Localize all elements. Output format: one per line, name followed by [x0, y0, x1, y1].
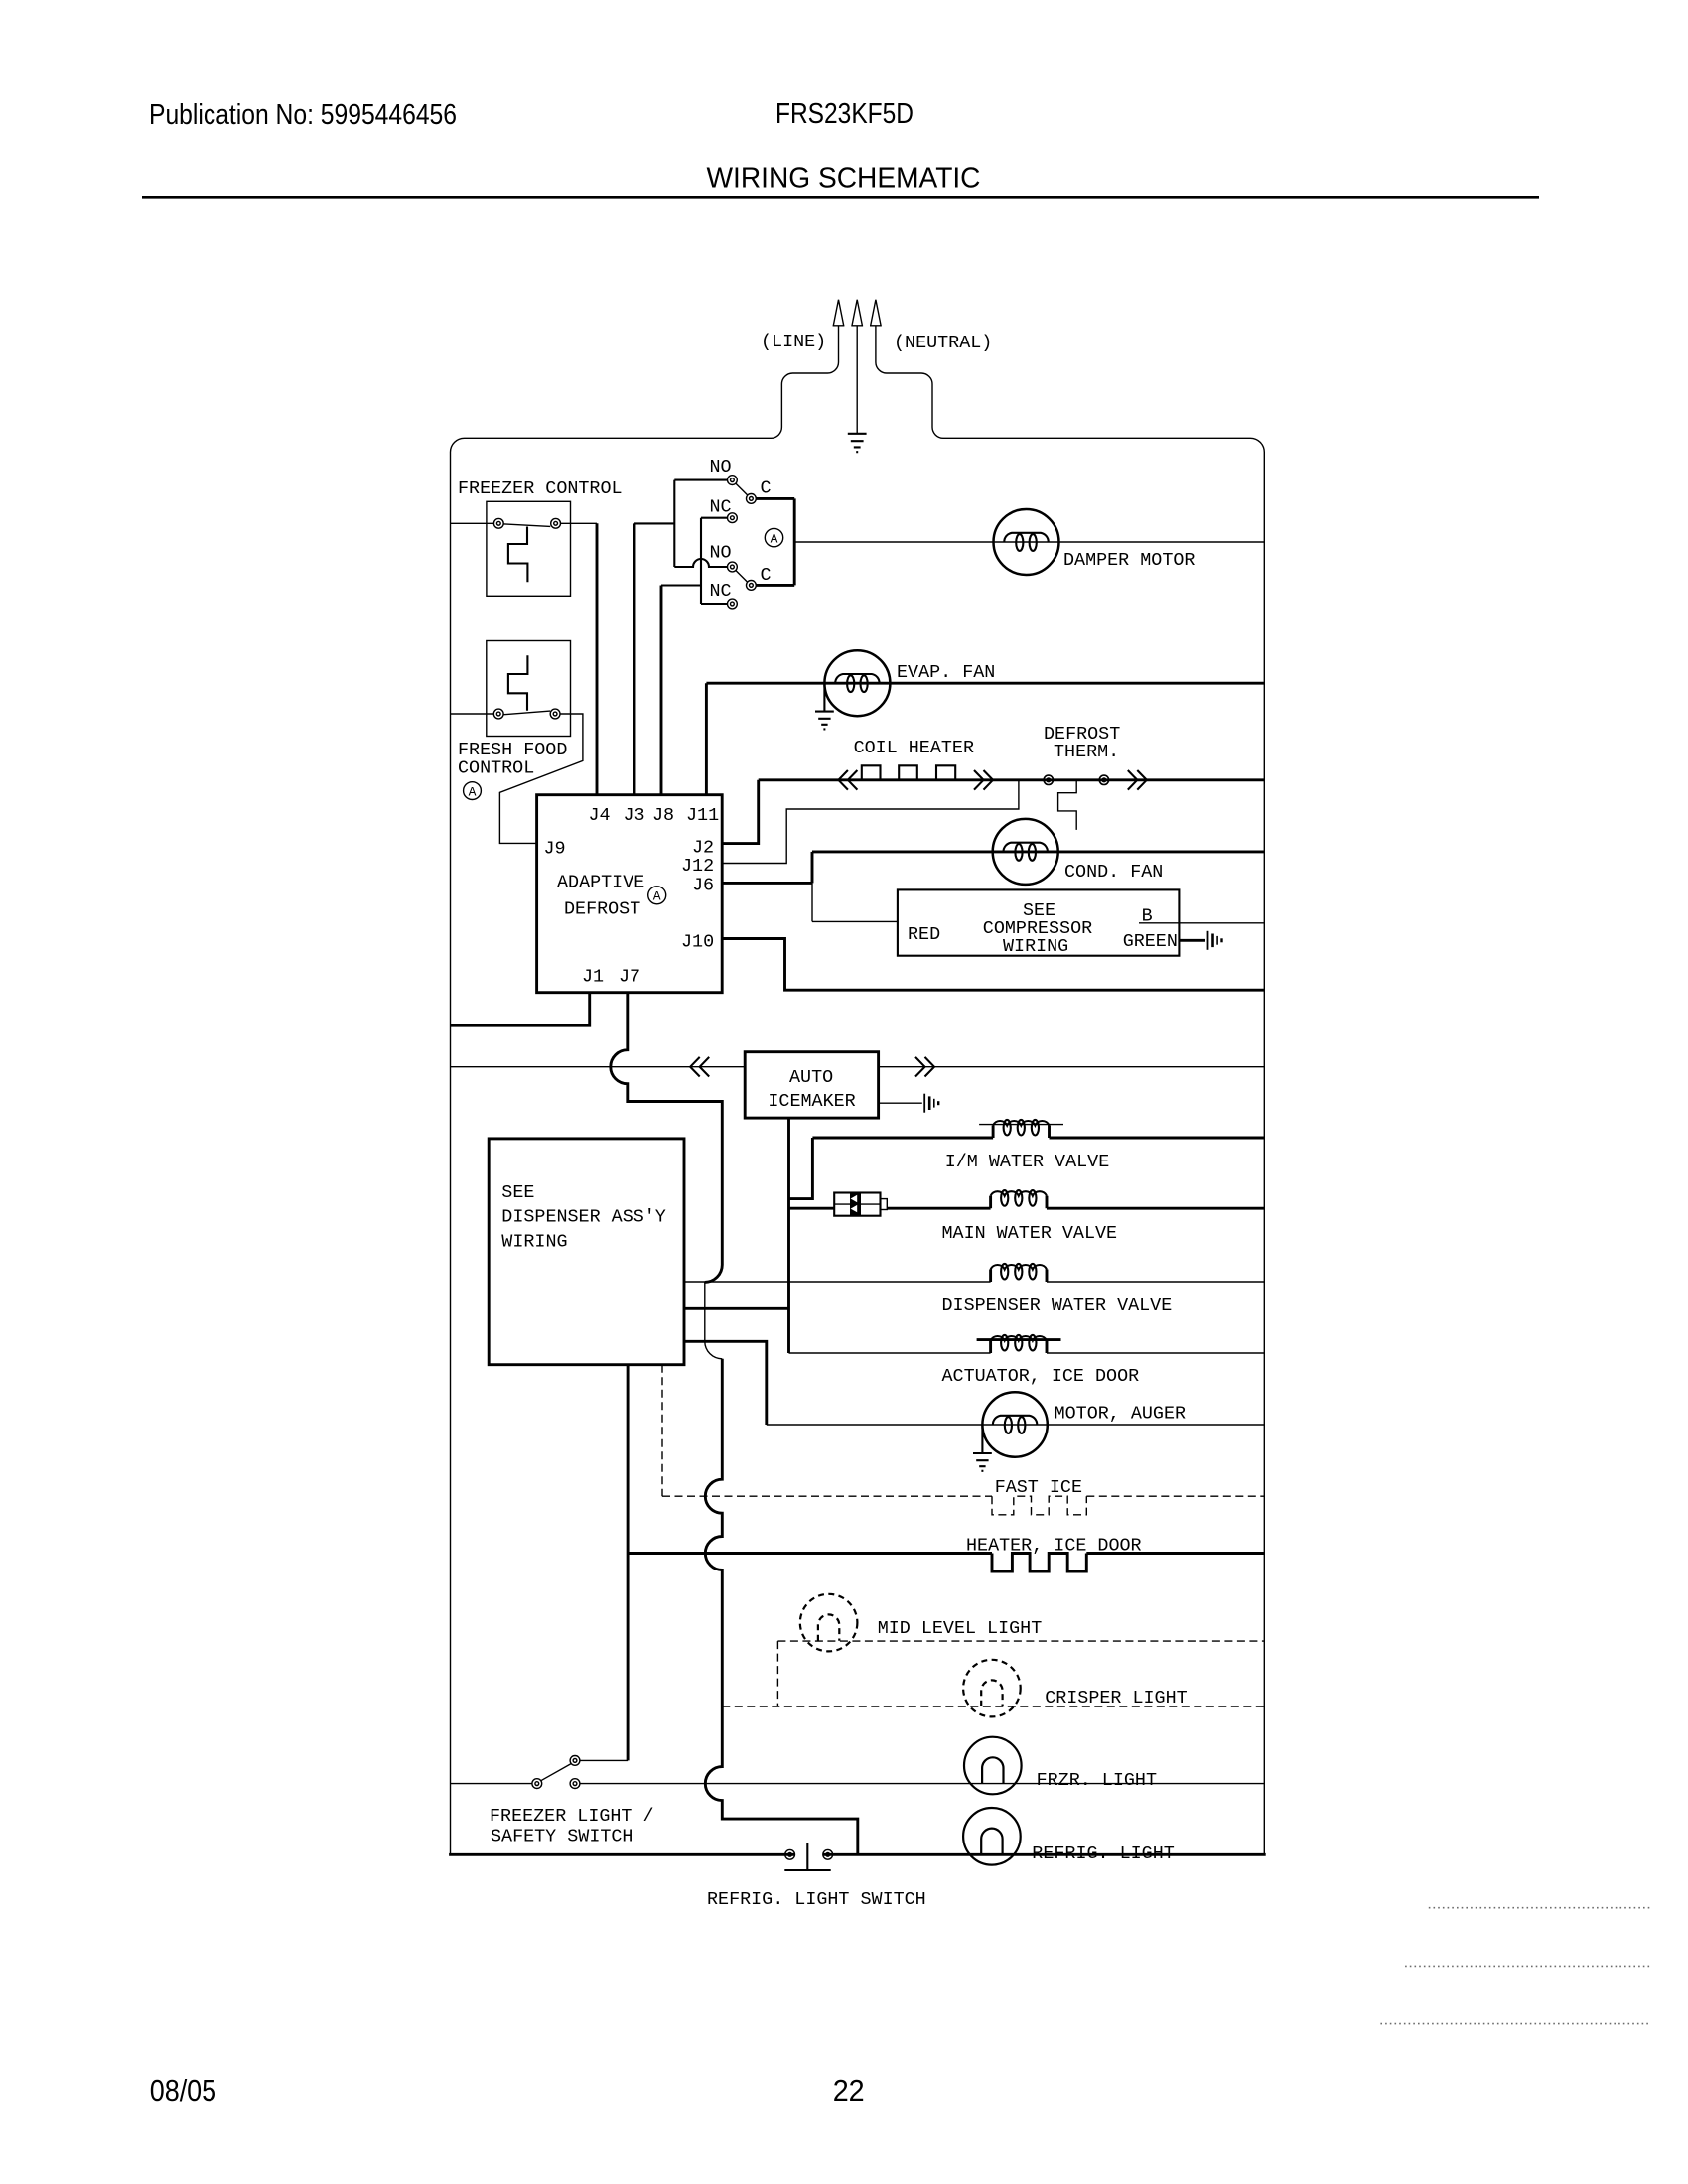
- wire: heater ice door line right: [1086, 1552, 1264, 1555]
- svg-text:REFRIG. LIGHT SWITCH: REFRIG. LIGHT SWITCH: [707, 1889, 926, 1910]
- coil heater element: [862, 765, 955, 780]
- plug prong arrow (NEUTRAL): [870, 300, 882, 326]
- defrost therm terminal dot left: [1044, 775, 1053, 784]
- auger motor: [982, 1392, 1047, 1456]
- svg-text:FREEZER CONTROL: FREEZER CONTROL: [458, 478, 623, 499]
- relay switch arm 1: [736, 483, 748, 495]
- svg-text:COIL HEATER: COIL HEATER: [854, 738, 974, 758]
- header rule: [142, 196, 1539, 199]
- wire: auger ground stub: [981, 1425, 983, 1452]
- svg-text:MOTOR, AUGER: MOTOR, AUGER: [1055, 1404, 1186, 1425]
- svg-text:J6: J6: [692, 876, 714, 896]
- svg-text:ICEMAKER: ICEMAKER: [768, 1091, 855, 1112]
- wire: safety switch top to dispenser drop: [580, 1759, 628, 1761]
- wire: C2 to relay right bracket: [756, 584, 794, 587]
- freezer control thermostat staircase: [508, 527, 528, 583]
- svg-text:08/05: 08/05: [150, 2073, 217, 2108]
- svg-text:J8: J8: [652, 805, 674, 826]
- wire: evap fan ground stub: [823, 683, 825, 711]
- svg-text:EVAP. FAN: EVAP. FAN: [897, 662, 995, 683]
- svg-text:C: C: [761, 565, 772, 586]
- svg-text:CRISPER LIGHT: CRISPER LIGHT: [1045, 1688, 1187, 1708]
- svg-text:(NEUTRAL): (NEUTRAL): [894, 333, 992, 353]
- wire: connector to main water valve: [887, 1207, 990, 1210]
- relay contact NC2 terminal: [728, 599, 738, 609]
- chassis ground (icemaker): [923, 1094, 925, 1113]
- svg-text:SEE: SEE: [501, 1182, 534, 1203]
- cond fan motor: [993, 819, 1058, 885]
- fresh food thermostat staircase: [508, 655, 528, 711]
- dispenser water valve coil: [989, 1270, 992, 1283]
- wire: icemaker bottom pin drop: [787, 1118, 790, 1353]
- svg-text:A: A: [469, 784, 477, 799]
- svg-text:WIRING: WIRING: [1003, 936, 1068, 957]
- wire: J8 link to NC riser: [661, 584, 701, 586]
- fresh food switch arm: [503, 711, 550, 715]
- svg-text:22: 22: [833, 2073, 865, 2108]
- dotted note line 2: [1405, 1965, 1650, 1967]
- wire: J6 stub: [722, 882, 812, 885]
- crisper light bulb: [963, 1660, 1021, 1717]
- relay switch arm 2: [736, 571, 748, 583]
- wire: NC2 from riser: [701, 603, 728, 605]
- wire: fresh food control to J9: [499, 714, 583, 843]
- main water valve coil: [989, 1196, 992, 1209]
- wire: J2 to coil heater riser: [722, 780, 759, 844]
- adaptive defrost control box: [537, 795, 723, 993]
- valve connector body: [834, 1193, 880, 1216]
- svg-text:I/M WATER VALVE: I/M WATER VALVE: [945, 1152, 1110, 1172]
- wire: J11 riser: [705, 683, 708, 795]
- svg-text:RED: RED: [908, 924, 940, 945]
- svg-text:FRZR. LIGHT: FRZR. LIGHT: [1037, 1770, 1157, 1791]
- chassis ground (compressor green): [1207, 931, 1209, 950]
- auto icemaker box: [745, 1052, 878, 1118]
- wire: dispenser drop vertical to safety switch: [627, 1365, 630, 1761]
- svg-text:FRS23KF5D: FRS23KF5D: [775, 98, 914, 130]
- wire: icemaker chain branch to dispenser box: [684, 1307, 789, 1310]
- main enclosure right+top edge from neutral prong, rounded corner: [876, 326, 1264, 1855]
- relay contact NO1 terminal: [728, 476, 738, 485]
- wire: J10 to lower bus to right bus: [722, 939, 1264, 991]
- svg-text:J11: J11: [686, 805, 719, 826]
- wire: fast ice dashed line left: [662, 1495, 992, 1497]
- svg-text:J10: J10: [681, 932, 714, 953]
- safety switch terminal top: [570, 1756, 580, 1766]
- wire: coil heater line (continuous): [759, 778, 1265, 781]
- wire: J3 riser: [633, 523, 636, 794]
- wire: GREEN lead: [1179, 939, 1205, 942]
- plug prong arrow (ground, middle): [851, 300, 863, 326]
- main enclosure left+top edge with rounded corner, up to line prong: [451, 326, 839, 1855]
- defrost therm terminal dot right: [1099, 775, 1108, 784]
- wire: RED lead into compressor box: [812, 920, 898, 922]
- svg-text:DEFROST: DEFROST: [564, 899, 640, 920]
- wire: relay to damper motor to right bus: [794, 541, 1264, 543]
- wire: auger motor line to right bus: [767, 1424, 1265, 1426]
- connector chevrons >> (icemaker right): [915, 1057, 934, 1077]
- fresh food circle-A marker: [464, 782, 482, 800]
- freezer control box: [487, 501, 571, 596]
- refrig light switch terminal left: [785, 1849, 795, 1859]
- actuator ice door coil: [989, 1341, 992, 1354]
- relay contact C1 terminal: [747, 494, 757, 504]
- svg-text:COND. FAN: COND. FAN: [1064, 862, 1163, 883]
- wire: I/M water valve line right: [1050, 1137, 1265, 1140]
- evap fan motor: [824, 650, 890, 716]
- fresh food terminal right: [550, 709, 560, 719]
- relay left bus vertical: [673, 480, 675, 567]
- wire: J4 riser: [596, 523, 599, 794]
- svg-text:HEATER, ICE DOOR: HEATER, ICE DOOR: [966, 1536, 1142, 1557]
- svg-text:J12: J12: [681, 856, 714, 877]
- svg-text:GREEN: GREEN: [1123, 931, 1178, 952]
- svg-text:DISPENSER ASS'Y: DISPENSER ASS'Y: [501, 1207, 666, 1228]
- wire: heater ice door line left: [628, 1552, 992, 1555]
- defrost thermostat step element: [1058, 780, 1077, 830]
- adaptive defrost circle-A marker: [648, 887, 666, 904]
- ground symbol (evap fan): [815, 712, 834, 730]
- relay contact NO2 terminal: [728, 562, 738, 572]
- wire: NC junction riser vertical: [700, 518, 702, 604]
- wire: dashed drop from dispenser box to fast ice line: [661, 1365, 663, 1496]
- mid level light bulb: [800, 1594, 858, 1652]
- connector chevrons >> (after defrost therm): [1128, 770, 1147, 790]
- wire: J3 feed to relay left bus: [634, 522, 674, 524]
- svg-text:THERM.: THERM.: [1054, 742, 1119, 762]
- I/M water valve coil: [992, 1126, 995, 1139]
- ground symbol below plug: [848, 434, 867, 452]
- wire: evaporator fan line J11 to right bus: [706, 682, 1264, 685]
- wire: J8 riser: [660, 586, 663, 795]
- connector chevrons << (coil heater): [838, 770, 857, 790]
- wire: left bus to fresh food control: [451, 713, 494, 715]
- svg-text:DISPENSER WATER VALVE: DISPENSER WATER VALVE: [942, 1296, 1173, 1316]
- wire: left bus to freezer control: [451, 522, 494, 524]
- refrig light bulb: [963, 1808, 1021, 1865]
- relay right bracket vertical: [793, 498, 796, 585]
- svg-text:FREEZER LIGHT /: FREEZER LIGHT /: [490, 1806, 654, 1827]
- svg-text:FAST ICE: FAST ICE: [995, 1477, 1082, 1498]
- wire: branch to main valve connector: [789, 1207, 835, 1210]
- wire: cond fan line to right bus: [812, 850, 1264, 853]
- safety switch terminal bottom-right: [570, 1779, 580, 1789]
- svg-text:A: A: [771, 531, 778, 546]
- safety switch terminal bottom-left: [532, 1779, 542, 1789]
- wire: crisper light dashed line: [722, 1706, 1264, 1707]
- frzr light bulb: [964, 1737, 1022, 1795]
- plug prong arrow (LINE): [833, 300, 845, 326]
- wire: C1 to relay right bracket: [756, 497, 794, 500]
- freezer control terminal right: [551, 518, 561, 528]
- wire: dispenser water valve line: [684, 1281, 991, 1283]
- wire: I/M water valve line left: [812, 1137, 993, 1140]
- svg-text:Publication No: 5995446456: Publication No: 5995446456: [149, 99, 457, 131]
- wire: J7 chain drop with hops over fast ice and heater lines: [705, 1359, 858, 1855]
- svg-text:ACTUATOR, ICE DOOR: ACTUATOR, ICE DOOR: [942, 1366, 1140, 1387]
- svg-text:J9: J9: [544, 839, 566, 860]
- wire: J12 jog to coil heater line: [722, 780, 1019, 864]
- wire: bottom bus left of refrig switch: [449, 1853, 794, 1856]
- svg-text:NO: NO: [710, 543, 732, 564]
- fast ice element (dashed): [992, 1496, 1086, 1515]
- svg-text:J1: J1: [582, 967, 604, 988]
- svg-text:C: C: [761, 478, 772, 499]
- svg-text:A: A: [653, 889, 661, 904]
- svg-text:DAMPER MOTOR: DAMPER MOTOR: [1063, 550, 1195, 571]
- wire: fast ice dashed line right: [1086, 1495, 1264, 1497]
- fresh food terminal left: [493, 709, 503, 719]
- fresh food control box: [487, 641, 571, 737]
- wire: NO2 from relay left bus with hop: [674, 559, 727, 567]
- svg-text:SAFETY SWITCH: SAFETY SWITCH: [491, 1827, 633, 1847]
- wire: main water valve to right bus: [1047, 1207, 1264, 1210]
- svg-text:WIRING: WIRING: [501, 1232, 567, 1253]
- wire: icemaker to right bus: [879, 1066, 1265, 1068]
- svg-text:J7: J7: [619, 967, 640, 988]
- compressor wiring box: [898, 889, 1180, 955]
- wire: mid level light dashed line: [777, 1640, 1264, 1642]
- wire: dispenser box to auger drop: [684, 1341, 767, 1425]
- wire: actuator ice door line: [789, 1352, 991, 1354]
- wire: bottom bus right of refrig switch: [823, 1853, 1266, 1856]
- wire: freezer light line to right bus: [580, 1783, 1264, 1785]
- safety switch arm: [541, 1763, 572, 1780]
- freezer control switch arm: [503, 524, 550, 527]
- wire: dashed riser mid-to-crisper: [776, 1641, 778, 1706]
- svg-text:NC: NC: [710, 581, 732, 602]
- wire: drop to compressor RED: [811, 883, 813, 921]
- wire: branch to I/M valve riser: [789, 1138, 813, 1199]
- wire: J7 chain thin jog through dispenser valve line: [705, 1282, 723, 1358]
- svg-text:MID LEVEL LIGHT: MID LEVEL LIGHT: [878, 1618, 1043, 1639]
- svg-text:ADAPTIVE: ADAPTIVE: [557, 873, 644, 893]
- svg-text:REFRIG. LIGHT: REFRIG. LIGHT: [1032, 1843, 1174, 1864]
- wire: actuator line to right bus: [1047, 1352, 1264, 1354]
- wire: J6 riser to cond fan line: [811, 852, 814, 884]
- freezer control terminal left: [493, 518, 503, 528]
- connector chevrons >> (after coil heater): [974, 770, 993, 790]
- heater ice door element: [992, 1554, 1086, 1572]
- connector chevrons << (icemaker): [690, 1057, 709, 1077]
- svg-text:J4: J4: [589, 805, 611, 826]
- refrig light switch plunger: [784, 1843, 830, 1870]
- wire: dispenser water valve to right bus: [1047, 1281, 1264, 1283]
- svg-text:AUTO: AUTO: [789, 1067, 833, 1088]
- relay contact NC1 terminal: [728, 513, 738, 523]
- wire: NC1 left to junction riser: [701, 517, 728, 519]
- svg-text:NC: NC: [710, 497, 732, 518]
- svg-text:(LINE): (LINE): [761, 332, 826, 352]
- svg-text:J3: J3: [624, 805, 645, 826]
- refrig light switch terminal right: [823, 1849, 833, 1859]
- wire: relay feed to NO1: [674, 479, 727, 481]
- dotted note line 1: [1429, 1907, 1651, 1909]
- relay contact C2 terminal: [747, 581, 757, 591]
- see dispenser assy wiring box: [489, 1139, 684, 1365]
- dotted note line 3: [1380, 2023, 1650, 2025]
- wire: left bus to auto icemaker: [451, 1066, 746, 1068]
- wire: J7 drop with hop over icemaker line: [611, 993, 722, 1283]
- wire: icemaker ground stub: [879, 1102, 922, 1104]
- wire: freezer control to J4 corner: [561, 522, 598, 524]
- ground symbol (auger motor): [973, 1453, 992, 1471]
- wire: B lead to right bus: [1139, 922, 1264, 924]
- svg-text:MAIN WATER VALVE: MAIN WATER VALVE: [942, 1223, 1118, 1244]
- svg-text:CONTROL: CONTROL: [458, 758, 534, 779]
- relay coil marker circle-A: [765, 528, 782, 546]
- wire: J1 to left bus: [451, 993, 590, 1025]
- svg-text:WIRING SCHEMATIC: WIRING SCHEMATIC: [707, 163, 981, 195]
- damper motor: [994, 509, 1059, 575]
- wire: left bus to safety switch: [451, 1783, 532, 1785]
- wire: middle prong to ground: [856, 326, 858, 433]
- svg-text:NO: NO: [710, 457, 732, 478]
